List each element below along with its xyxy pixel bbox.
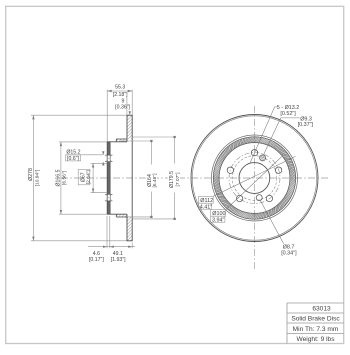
- knurl band texture: [213, 137, 295, 219]
- arrows bottom dims: [103, 246, 107, 248]
- plate right face: [109, 142, 111, 214]
- svg-text:55.3: 55.3: [115, 85, 125, 91]
- dim Ø67 line: [92, 163, 94, 192]
- knurl band inner edge: [219, 143, 290, 214]
- centerline horizontal: [61, 177, 328, 179]
- svg-text:[0.52"]: [0.52"]: [280, 111, 296, 117]
- lug hole bottom X: [105, 195, 112, 201]
- svg-text:Ø67: Ø67: [80, 172, 86, 182]
- svg-text:[2.64"]: [2.64"]: [86, 170, 92, 185]
- chamfer circle: [192, 116, 316, 240]
- center bore: [239, 163, 270, 194]
- dim Ø166.5 ext top: [59, 141, 107, 143]
- dim Ø166.5 line: [60, 142, 62, 214]
- lug hole top (white gap): [107, 155, 111, 162]
- dim Ø278 ext bottom: [31, 240, 127, 242]
- arrow 9 dim: [129, 111, 131, 115]
- svg-text:[1.93"]: [1.93"]: [111, 257, 126, 263]
- leader Ø8.7: [260, 200, 284, 244]
- box around [0.6"]: [66, 155, 81, 161]
- leader Ø9.3: [263, 118, 299, 155]
- dim Ø166.5 ext bottom: [59, 213, 107, 215]
- svg-text:Ø164: Ø164: [147, 174, 153, 187]
- disc outboard face: [131, 115, 133, 241]
- knurl band outer edge: [213, 137, 295, 219]
- dim Ø164 and Ø179.5: [121, 137, 176, 219]
- hub plate hatched: [107, 142, 110, 214]
- hat shoulder outer bottom: [116, 216, 127, 218]
- arrows Ø15.2: [102, 151, 104, 155]
- svg-text:[6.56"]: [6.56"]: [61, 170, 67, 185]
- arrows Ø166.5: [60, 142, 62, 146]
- leader Ø112: [213, 156, 295, 196]
- svg-text:Ø15.2: Ø15.2: [66, 149, 80, 155]
- lug hole bottom (white gap): [107, 194, 111, 201]
- svg-text:[10.94"]: [10.94"]: [34, 169, 40, 186]
- svg-text:Ø166.5: Ø166.5: [55, 169, 61, 186]
- arrows Ø67: [92, 163, 94, 167]
- hat shoulder wedge top hatch: [116, 139, 127, 142]
- disc band hatched bottom: [127, 217, 132, 241]
- hat step bottom: [115, 214, 117, 217]
- disc band left face top: [126, 115, 128, 142]
- svg-text:[0.36"]: [0.36"]: [115, 105, 130, 111]
- hat shoulder outer top: [116, 138, 127, 140]
- arrowheads 55.3: [107, 90, 112, 93]
- svg-text:Min Th: 7.3 mm: Min Th: 7.3 mm: [293, 326, 339, 333]
- hat shoulder wedge bottom hatch: [116, 214, 127, 217]
- leader 5-Ø13.2: [250, 107, 277, 164]
- Ø100 dashed circle: [232, 156, 277, 201]
- box around Ø67 [2.64"]: [78, 169, 90, 184]
- lug hole top edges: [105, 154, 113, 156]
- boxes Ø112 / 4.41": [199, 196, 214, 203]
- hat bowl top surface: [107, 141, 127, 143]
- svg-text:Ø179.5: Ø179.5: [169, 171, 175, 188]
- lug hole 5 bottom-right: [266, 195, 272, 201]
- hat bowl bottom surface: [107, 213, 127, 215]
- disc OD bottom edge: [127, 240, 133, 242]
- disc OD top edge: [127, 114, 133, 116]
- leader Ø100: [226, 156, 282, 209]
- svg-text:Solid Brake Disc: Solid Brake Disc: [291, 316, 340, 323]
- braking surface inner circle: [212, 135, 298, 221]
- Ø15.2 leader: [66, 154, 103, 156]
- boxes Ø100 / 3.94": [211, 210, 226, 217]
- dim Ø278 ext top: [31, 114, 127, 116]
- hat step top: [115, 139, 117, 142]
- lug hole top X: [105, 155, 112, 161]
- svg-text:[0.37"]: [0.37"]: [298, 122, 314, 128]
- lug hole 3 right: [275, 167, 281, 173]
- dim 55.3 ext lines: [106, 90, 108, 142]
- arrows Ø278: [32, 115, 34, 119]
- screw hole Ø8.7: [256, 195, 262, 201]
- dim Ø278 line: [32, 115, 34, 241]
- bottom dim line: [88, 246, 135, 248]
- svg-text:Weight: 9 lbs: Weight: 9 lbs: [297, 336, 336, 343]
- dim 9 ext: [126, 97, 128, 115]
- lug hole bottom edges: [105, 193, 113, 195]
- hub face left edge: [106, 142, 108, 214]
- lug hole 4 bottom-left: [236, 195, 242, 201]
- svg-text:[2.18"]: [2.18"]: [113, 92, 128, 98]
- disc band hatched top: [127, 115, 132, 139]
- svg-text:3.94": 3.94": [212, 218, 224, 224]
- dim Ø67 ext bottom: [91, 192, 108, 194]
- centerline vertical: [254, 106, 256, 270]
- bolt circle dash-dot: [229, 153, 280, 204]
- lug hole 2 left: [227, 167, 233, 173]
- svg-text:[0.17"]: [0.17"]: [89, 257, 104, 263]
- lug hole 1 top: [251, 150, 257, 156]
- svg-text:63013: 63013: [312, 305, 331, 312]
- dim Ø67 ext top: [91, 162, 108, 164]
- svg-text:[6.46"]: [6.46"]: [152, 173, 158, 188]
- screw hole Ø9.3 hatched: [260, 155, 266, 161]
- svg-text:Ø8.7: Ø8.7: [283, 245, 295, 251]
- bottom dims ext lines: [106, 216, 108, 248]
- svg-text:Ø278: Ø278: [28, 168, 34, 181]
- svg-text:[0.34"]: [0.34"]: [281, 251, 297, 257]
- outer circle OD: [191, 115, 318, 242]
- dim 55.3 line: [107, 90, 132, 92]
- disc band left face bottom: [126, 214, 128, 241]
- svg-text:4.41": 4.41": [200, 205, 212, 211]
- svg-text:[7.07"]: [7.07"]: [175, 172, 181, 187]
